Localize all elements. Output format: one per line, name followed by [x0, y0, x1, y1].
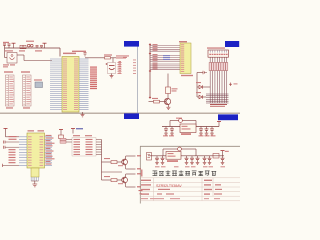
- table row1 labels: [141, 180, 151, 181]
- U1 right pin bus: [79, 58, 89, 60]
- U4 right wires: [96, 139, 102, 141]
- wire diode feed: [196, 73, 198, 98]
- connector JP3: [180, 43, 191, 74]
- wire vcc row: [85, 57, 122, 59]
- label JP3: [179, 41, 187, 42]
- wire battery to rail: [4, 48, 6, 58]
- svg-text:SZR52LT538AV: SZR52LT538AV: [156, 184, 182, 188]
- inductor L1: [213, 154, 219, 159]
- resistor R14: [111, 179, 117, 182]
- label U5: [181, 133, 191, 134]
- capacitor C22: [3, 146, 5, 149]
- capacitor C14: [162, 156, 164, 158]
- title block left border: [139, 146, 141, 203]
- component S1 box: [20, 45, 26, 48]
- capacitor C15: [186, 156, 188, 158]
- label P2 title: [21, 71, 30, 72]
- component G1 gray box: [35, 82, 43, 88]
- label Y1: [26, 41, 34, 42]
- capacitor C21: [3, 141, 5, 144]
- net labels right of U1: [90, 67, 97, 68]
- resistor R1: [105, 57, 111, 59]
- wire emitter Q3: [125, 183, 127, 187]
- diode D4: [178, 147, 182, 151]
- label U2: [28, 130, 35, 131]
- connector J1: [147, 153, 152, 161]
- label collector Q2: [137, 155, 141, 156]
- label Q1: [152, 98, 158, 99]
- wire emitter Q2: [125, 165, 127, 169]
- U2 pin names right: [40, 135, 44, 138]
- U1 pin names left column: [63, 57, 67, 60]
- label P1 title: [4, 71, 13, 72]
- U2 right pins: [45, 136, 53, 138]
- transistor Q1: [164, 98, 170, 104]
- wire main rail B: [148, 155, 224, 157]
- capacitor C17: [197, 156, 199, 158]
- transistor Q2: [122, 159, 128, 165]
- label Q3: [104, 176, 110, 177]
- regulator U5: [180, 124, 196, 133]
- resistor R13: [111, 161, 117, 164]
- resistor row labels: [153, 44, 158, 45]
- wire down to C6: [112, 58, 114, 63]
- U2 pin names left: [28, 135, 32, 138]
- capacitor C11: [206, 127, 208, 129]
- label P1 CON16: [6, 107, 13, 108]
- diode D1: [197, 86, 199, 88]
- title block top border: [140, 145, 240, 147]
- wire branch Q3: [102, 179, 112, 181]
- resistor R10: [166, 87, 171, 94]
- label small: [123, 57, 127, 58]
- bus wire vertical: [137, 47, 139, 114]
- capacitor C2: [8, 45, 10, 48]
- label group reset: [19, 50, 25, 51]
- blue net labels mid: [163, 55, 170, 56]
- junction diamonds: [149, 43, 152, 46]
- power flag VCC1: [12, 42, 16, 44]
- wire collector Q2: [125, 156, 127, 159]
- capacitor C20: [222, 156, 224, 158]
- U4 row labels: [74, 139, 81, 140]
- net flag row1: [60, 138, 66, 140]
- diode D2: [197, 96, 199, 98]
- labels power B: [155, 166, 160, 167]
- ic U2: [27, 133, 45, 168]
- crystal Y1: [27, 44, 30, 47]
- table row3: [141, 189, 150, 190]
- label DS1: [207, 47, 225, 48]
- table row5: [141, 198, 148, 199]
- horizontal sheet divider: [0, 112, 240, 114]
- labels right column: [139, 190, 143, 191]
- power flag mid1: [59, 129, 63, 131]
- table lines: [140, 177, 240, 179]
- label emitter Q3: [137, 186, 141, 187]
- capacitor C19: [209, 156, 211, 158]
- labels under RN1: [210, 104, 227, 105]
- wire lower rail: [17, 54, 24, 56]
- transistor Q3: [122, 177, 128, 183]
- capacitor C16: [191, 156, 193, 158]
- note marks column: [119, 60, 122, 63]
- U2 left net labels lower: [9, 149, 16, 150]
- wire R10 to Q1: [167, 94, 169, 99]
- U1 pin names right column: [74, 57, 78, 60]
- label R10: [172, 88, 178, 89]
- wire base Q1: [160, 101, 167, 103]
- bus vertical: [101, 140, 103, 181]
- U2 right net labels: [46, 135, 52, 136]
- ground U2: [32, 183, 37, 185]
- wire mid link: [102, 171, 123, 173]
- ground under U1: [82, 112, 84, 115]
- regulator U3: [166, 152, 181, 160]
- label below JP3: [181, 75, 193, 76]
- ground Q1: [167, 105, 169, 108]
- connector P2: [23, 75, 32, 106]
- resistor row bus to JP3: [150, 45, 180, 47]
- capacitor C12: [211, 127, 213, 129]
- label C1: [5, 50, 13, 51]
- capacitor C5: [84, 54, 86, 57]
- label +5V: [76, 128, 83, 129]
- ic U2 bottom tab: [31, 168, 39, 177]
- table row4: [141, 193, 149, 194]
- wire bypass loop B: [163, 148, 178, 150]
- labels power A: [163, 135, 168, 136]
- label D2: [196, 92, 201, 93]
- capacitor C3: [36, 47, 38, 48]
- power flag mid2: [71, 128, 75, 130]
- table row2: part number: [141, 184, 151, 185]
- diode D3: [179, 119, 183, 123]
- capacitor C4: [41, 47, 43, 48]
- label U3 LM7805: [167, 160, 178, 161]
- U2 bottom pins: [30, 177, 32, 181]
- capacitor C1: [4, 45, 6, 48]
- capacitor C7: [202, 71, 204, 74]
- wire top rail: [5, 47, 61, 49]
- label G1: [34, 79, 42, 80]
- note text: [116, 55, 129, 56]
- label collector Q3: [137, 173, 141, 174]
- label U4: [73, 135, 80, 136]
- wire bypass loop A: [170, 120, 179, 122]
- label Q2: [104, 158, 110, 159]
- net flag P0 bottom: [124, 113, 139, 119]
- net flag P0 top: [124, 41, 139, 47]
- capacitor C13: [156, 156, 158, 158]
- label R1: [104, 54, 112, 55]
- net flag power A: [218, 114, 238, 120]
- company title: [153, 170, 158, 172]
- power flag A: [218, 122, 220, 127]
- label P2 CON16: [23, 107, 30, 108]
- segment resistor network RN1: [209, 57, 211, 103]
- wire branch Q2: [102, 161, 112, 163]
- capacitor C18: [204, 156, 206, 158]
- wire U2 pin12: [3, 164, 20, 166]
- net flag row2: [60, 141, 66, 143]
- battery BT1: [7, 53, 17, 64]
- header DS1: [208, 50, 229, 57]
- wire junction vertical: [149, 45, 151, 99]
- U2 left pins: [19, 136, 27, 138]
- U1 left pin bus: [50, 58, 62, 60]
- label column right of C6: [118, 61, 122, 64]
- matrix grid: [206, 93, 229, 95]
- power flag VCC2: [43, 42, 47, 44]
- label emitter Q2: [137, 168, 141, 169]
- wire to R10: [167, 74, 169, 88]
- label column far: [133, 59, 136, 62]
- capacitor C9: [171, 127, 173, 129]
- vertical note on border: [141, 170, 142, 177]
- wire collector Q3: [125, 174, 127, 177]
- ic U4: [72, 138, 96, 157]
- power flag B: [222, 151, 224, 156]
- capacitor C10: [200, 127, 202, 129]
- resistor R12: [59, 135, 64, 139]
- label U1: [63, 53, 76, 55]
- U2 left net labels: [9, 136, 17, 137]
- resistor R11: [154, 100, 160, 103]
- mcu U1: [62, 57, 79, 113]
- connector P1: [6, 75, 15, 106]
- capacitor C6 electrolytic: [108, 63, 116, 74]
- capacitor C8: [165, 127, 167, 129]
- label D1: [196, 82, 201, 83]
- net flag right: [225, 41, 239, 47]
- label BT1: [3, 64, 9, 65]
- ground under C6: [111, 74, 113, 76]
- test point TP1: [230, 83, 232, 87]
- power flag U2: [4, 128, 8, 130]
- wire main rail A: [162, 126, 219, 128]
